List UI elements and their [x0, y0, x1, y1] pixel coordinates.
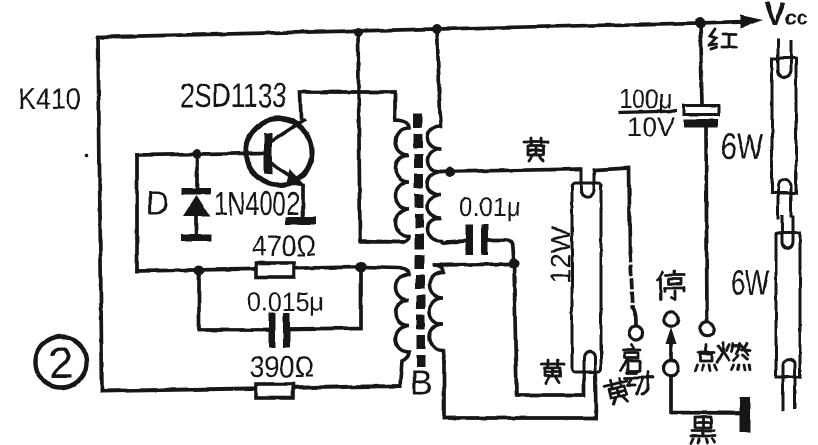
- node junction 470 left: [194, 266, 204, 276]
- wire base loop left: [135, 155, 139, 271]
- wire base: [137, 153, 264, 155]
- resistor R2 390 body: [256, 384, 293, 398]
- svg-text:0.015μ: 0.015μ: [247, 287, 324, 317]
- node ignite terminal circle: [700, 322, 714, 336]
- svg-text:100μ: 100μ: [619, 84, 672, 114]
- label ran (burn): [717, 343, 750, 370]
- lamp 12W tube body: [572, 183, 601, 372]
- label dian (ignite): [695, 345, 717, 370]
- label ting (stop): [658, 271, 684, 300]
- wire left rail: [98, 37, 102, 391]
- wire junction A to primary bottom end: [358, 33, 403, 242]
- node emitter terminal bar: [285, 217, 316, 225]
- transistor Q1 2SD1133 circle: [246, 119, 312, 185]
- lamp 6W lower bottom filament: [783, 360, 795, 410]
- node Vcc arrowhead: [740, 15, 763, 28]
- inductor secondary bottom winding: [430, 265, 445, 362]
- capacitor C3 plate bottom solid: [684, 119, 718, 128]
- node black terminal bar: [740, 397, 751, 432]
- diode D1 cathode bar: [182, 188, 211, 195]
- wire top rail: [98, 23, 700, 37]
- wire collector: [300, 92, 395, 120]
- wire lamp top-right to starter: [594, 168, 630, 253]
- label huang (yellow) bottom-right slanted: [603, 377, 632, 406]
- svg-text:6W: 6W: [721, 126, 763, 167]
- lamp 6W lower tube body: [776, 233, 800, 377]
- wire lamp bottom-right leg: [595, 358, 596, 418]
- switch stop arrow lever: [666, 327, 677, 344]
- capacitor C3 100u wire top: [700, 23, 702, 104]
- wire node down to lamp bottom-left leg: [514, 263, 584, 395]
- transistor Q1 collector stroke: [272, 120, 304, 141]
- label circled 2 ring: [36, 337, 87, 388]
- node junction Vcc: [695, 18, 706, 29]
- inductor secondary top winding: [428, 114, 467, 243]
- label huang (yellow) top: [524, 138, 548, 161]
- wire secondary top feed: [437, 29, 440, 114]
- inductor primary top winding: [361, 120, 409, 242]
- inductor primary bottom winding: [361, 267, 409, 386]
- label qi (start): [621, 345, 640, 371]
- svg-text:D: D: [146, 185, 169, 221]
- capacitor C2 plate right: [481, 224, 488, 255]
- svg-text:6W: 6W: [731, 262, 769, 303]
- wire 0.015 branch left: [199, 271, 267, 330]
- node starter terminal circle: [629, 326, 643, 340]
- svg-text:0.01μ: 0.01μ: [459, 192, 521, 222]
- diode D1 triangle: [183, 195, 210, 216]
- node secondary tap: [445, 167, 455, 177]
- svg-text:10V: 10V: [627, 112, 675, 142]
- diode D1 lead top: [195, 154, 199, 189]
- svg-text:B: B: [410, 364, 433, 402]
- node junction 470 right: [356, 262, 367, 273]
- label hei (black): [691, 417, 715, 443]
- svg-text:K410: K410: [18, 83, 81, 116]
- transistor Q1 emitter arrowhead: [286, 169, 306, 188]
- svg-text:2: 2: [49, 339, 73, 388]
- node junction top B: [432, 24, 442, 34]
- switch stop lower circle: [664, 361, 679, 376]
- node base junction: [192, 149, 202, 159]
- resistor R1 470 body: [256, 263, 294, 277]
- svg-text:470Ω: 470Ω: [252, 230, 316, 263]
- wire bottom run to lamp: [444, 416, 596, 420]
- svg-text:1N4002: 1N4002: [214, 185, 300, 222]
- switch stop upper circle: [664, 312, 678, 326]
- svg-text:390Ω: 390Ω: [250, 351, 314, 384]
- wire starter dashed: [630, 253, 633, 308]
- capacitor C2 0.01 left wire: [446, 241, 466, 242]
- lamp 12W bottom filament: [584, 352, 595, 394]
- svg-text:12W: 12W: [545, 226, 576, 284]
- svg-text:2SD1133: 2SD1133: [180, 77, 287, 115]
- diode D1 anode terminal bar: [181, 234, 212, 242]
- capacitor C1 0.015 plate right: [283, 313, 290, 348]
- lamp 6W upper tube body: [772, 58, 796, 193]
- switch stop lever line: [669, 342, 673, 361]
- wire 470 row: [137, 267, 360, 271]
- diode D1 lead bottom: [194, 216, 198, 234]
- transistor Q1 emitter stroke: [271, 163, 294, 178]
- wire secondary bottom top-row to cap node: [435, 264, 510, 265]
- wire C2 right to node: [488, 240, 514, 263]
- lamp 6W upper top filament: [778, 40, 791, 77]
- wire bottom rail 390: [102, 386, 400, 391]
- capacitor C1 0.015 plate left: [269, 313, 276, 348]
- capacitor C3 plate top hollow: [684, 106, 719, 115]
- wire secondary bottom down: [442, 362, 446, 418]
- wire Vcc arrow lead: [700, 22, 744, 24]
- wire starter tail: [633, 308, 636, 325]
- capacitor C2 plate left: [466, 224, 473, 255]
- label cap fraction bar: [618, 111, 677, 113]
- label dong (move): [625, 372, 653, 394]
- lamp 6W lower top filament: [782, 216, 793, 248]
- transformer B core dashes: [413, 114, 426, 367]
- node C2 junction: [509, 258, 520, 269]
- svg-text:cc: cc: [785, 7, 809, 30]
- svg-text:V: V: [764, 0, 786, 32]
- lamp 6W upper bottom filament: [778, 179, 791, 218]
- wire yellow tap to lamp: [441, 169, 580, 172]
- label hong (red): [709, 29, 737, 49]
- wire 0.015 branch right: [291, 267, 361, 329]
- wire stop to black terminal: [671, 376, 739, 414]
- transistor Q1 base bar: [264, 133, 272, 174]
- node junction top A: [354, 28, 363, 37]
- wire C3 down to ignite: [706, 128, 707, 322]
- wire emitter: [301, 186, 305, 217]
- ink speck: [84, 153, 88, 157]
- label huang (yellow) bottom-left: [541, 360, 564, 383]
- lamp 12W top filament: [581, 169, 594, 197]
